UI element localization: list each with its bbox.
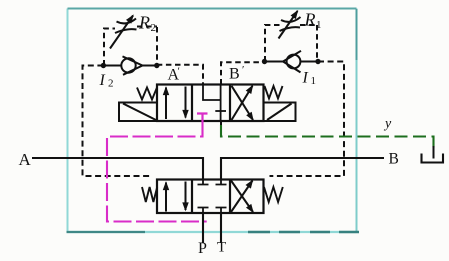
node I2-left xyxy=(101,63,106,68)
wire: R1 pilot loop (dashed) xyxy=(265,25,317,62)
svg-text:R: R xyxy=(138,13,150,33)
wire: pilot pressure line from P (magenta dashed) xyxy=(107,121,207,222)
wire: T' drain stub xyxy=(220,121,222,125)
wire: P port line xyxy=(202,213,204,243)
throttle valve R1 xyxy=(279,11,301,39)
pilot valve left square arrows xyxy=(166,87,186,120)
svg-text:1: 1 xyxy=(316,19,322,31)
wire: R2 pilot loop (dashed) xyxy=(104,27,157,66)
throttle valve R2 xyxy=(110,16,137,49)
wire: drain into tank xyxy=(433,146,435,159)
node I1-right xyxy=(315,59,320,64)
pilot valve right square crossed arrows xyxy=(232,86,254,120)
border darker right top xyxy=(356,9,358,60)
svg-text:A: A xyxy=(19,150,32,169)
wire: left pilot drain line I2 to main valve left cap (dashed) xyxy=(83,66,153,177)
pilot valve P' blocked port (magenta) xyxy=(197,114,208,122)
check valve I1 xyxy=(265,51,319,73)
svg-text:I: I xyxy=(302,70,309,87)
node I2-right (A' node) xyxy=(154,63,159,68)
wire: pilot valve port B' to node I1-left (dashed) xyxy=(221,62,265,84)
svg-text:2: 2 xyxy=(108,78,114,90)
svg-text:R: R xyxy=(304,10,316,30)
wire: port A line xyxy=(32,158,203,180)
svg-text:1: 1 xyxy=(311,75,317,87)
wire: external drain y line (green dashed) xyxy=(221,125,434,151)
main valve left spring xyxy=(142,187,157,202)
main valve right square crossed arrows xyxy=(231,181,253,213)
border darker dashes bottom xyxy=(248,231,359,233)
svg-text:I: I xyxy=(99,72,106,89)
node I1-left xyxy=(262,59,267,64)
svg-text:′: ′ xyxy=(242,64,244,76)
svg-text:T: T xyxy=(217,240,226,256)
wire: right pilot line I1 to main valve right cap (dashed) xyxy=(270,62,345,177)
enclosure border (cyan box) xyxy=(67,9,69,233)
wire: T port line xyxy=(220,213,222,243)
pilot valve left spring xyxy=(137,88,157,100)
main valve U2 body xyxy=(157,180,264,214)
pilot valve left solenoid xyxy=(119,103,157,122)
svg-text:2: 2 xyxy=(151,22,157,34)
svg-text:′: ′ xyxy=(178,66,180,78)
svg-text:B: B xyxy=(389,151,399,168)
pilot valve right spring xyxy=(265,86,283,99)
op: pilot valve U1 body xyxy=(157,85,264,122)
main valve left square arrows xyxy=(166,182,186,212)
wire: port B line xyxy=(221,158,384,180)
main valve right spring xyxy=(264,187,283,202)
svg-text:y: y xyxy=(383,117,392,132)
pilot valve centre position: A'->T' step xyxy=(203,85,226,122)
svg-text:B: B xyxy=(229,66,240,83)
pilot valve right solenoid xyxy=(264,103,296,122)
tank symbol xyxy=(422,154,444,163)
check valve I2 xyxy=(103,56,156,74)
svg-text:P: P xyxy=(198,240,207,257)
wire: node A' to pilot valve port A' (dashed) xyxy=(157,65,203,85)
main valve centre position: blocked ports xyxy=(198,180,227,214)
